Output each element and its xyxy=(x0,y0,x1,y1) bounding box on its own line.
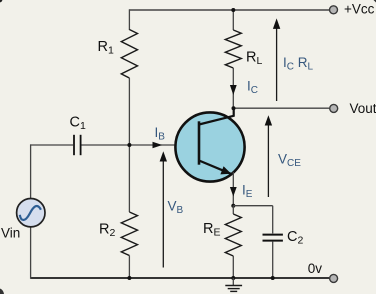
node emitter junction xyxy=(231,204,235,208)
resistor R2 xyxy=(121,212,137,256)
node RE bottom junction xyxy=(231,276,235,280)
resistor RE xyxy=(225,214,241,256)
svg-text:Vin: Vin xyxy=(1,226,20,241)
wire emitter vertical xyxy=(232,172,234,206)
terminal +Vcc xyxy=(330,6,338,14)
wire R2 top from base node xyxy=(128,145,130,212)
arrow IC on collector wire xyxy=(230,85,237,95)
svg-text:+Vcc: +Vcc xyxy=(344,2,375,17)
corner artifact top-right xyxy=(374,0,376,3)
svg-text:Vout: Vout xyxy=(350,101,376,116)
source Vin body xyxy=(17,199,45,227)
ground xyxy=(232,278,234,285)
wire RE bottom xyxy=(232,256,234,278)
node C2 bottom junction xyxy=(271,276,275,280)
wire R1 bottom to base node xyxy=(128,78,130,145)
node base / divider junction xyxy=(127,143,131,147)
arrow IE on emitter wire xyxy=(230,187,237,197)
wire base left segment xyxy=(30,144,73,146)
wire left input vertical top xyxy=(30,144,32,198)
arrow ICRL measure xyxy=(276,25,278,101)
wire Vout xyxy=(233,107,329,109)
wire C2 top lead xyxy=(272,206,274,234)
wire RL branch top xyxy=(232,9,234,30)
wire emitter to C2 horizontal xyxy=(233,205,272,207)
resistor RL xyxy=(225,30,241,68)
transistor base bar xyxy=(198,121,201,164)
wire left input vertical bottom xyxy=(30,228,32,279)
wire bottom rail 0v xyxy=(31,277,330,279)
wire C2 bottom lead xyxy=(272,242,274,278)
source Vin sine wave xyxy=(20,206,41,220)
capacitor C2 xyxy=(263,234,283,236)
node R2 bottom junction xyxy=(127,276,131,280)
corner artifact bottom-left xyxy=(0,289,4,294)
terminal 0v xyxy=(330,274,338,282)
transistor emitter line xyxy=(199,161,232,175)
arrow VB measure xyxy=(162,158,164,268)
wire RL bottom to collector node xyxy=(232,68,234,108)
wire RE top xyxy=(232,206,234,214)
arrow VCE measure xyxy=(267,122,269,197)
corner artifact top-left xyxy=(0,0,2,2)
wire R2 bottom xyxy=(128,256,130,279)
node collector / Vout junction xyxy=(232,106,236,110)
terminal Vout xyxy=(330,104,338,112)
resistor R1 xyxy=(121,30,137,79)
capacitor C1 xyxy=(73,135,75,155)
arrow IB on base wire xyxy=(153,142,163,149)
transistor Q1 body xyxy=(175,112,244,181)
transistor emitter arrowhead xyxy=(220,166,231,174)
wire base right segment xyxy=(82,144,200,146)
transistor collector line xyxy=(199,108,234,125)
wire top rail xyxy=(129,9,329,11)
wire R1 branch top xyxy=(128,9,130,30)
node top rail / RL junction xyxy=(231,8,235,12)
svg-text:0v: 0v xyxy=(308,261,323,276)
